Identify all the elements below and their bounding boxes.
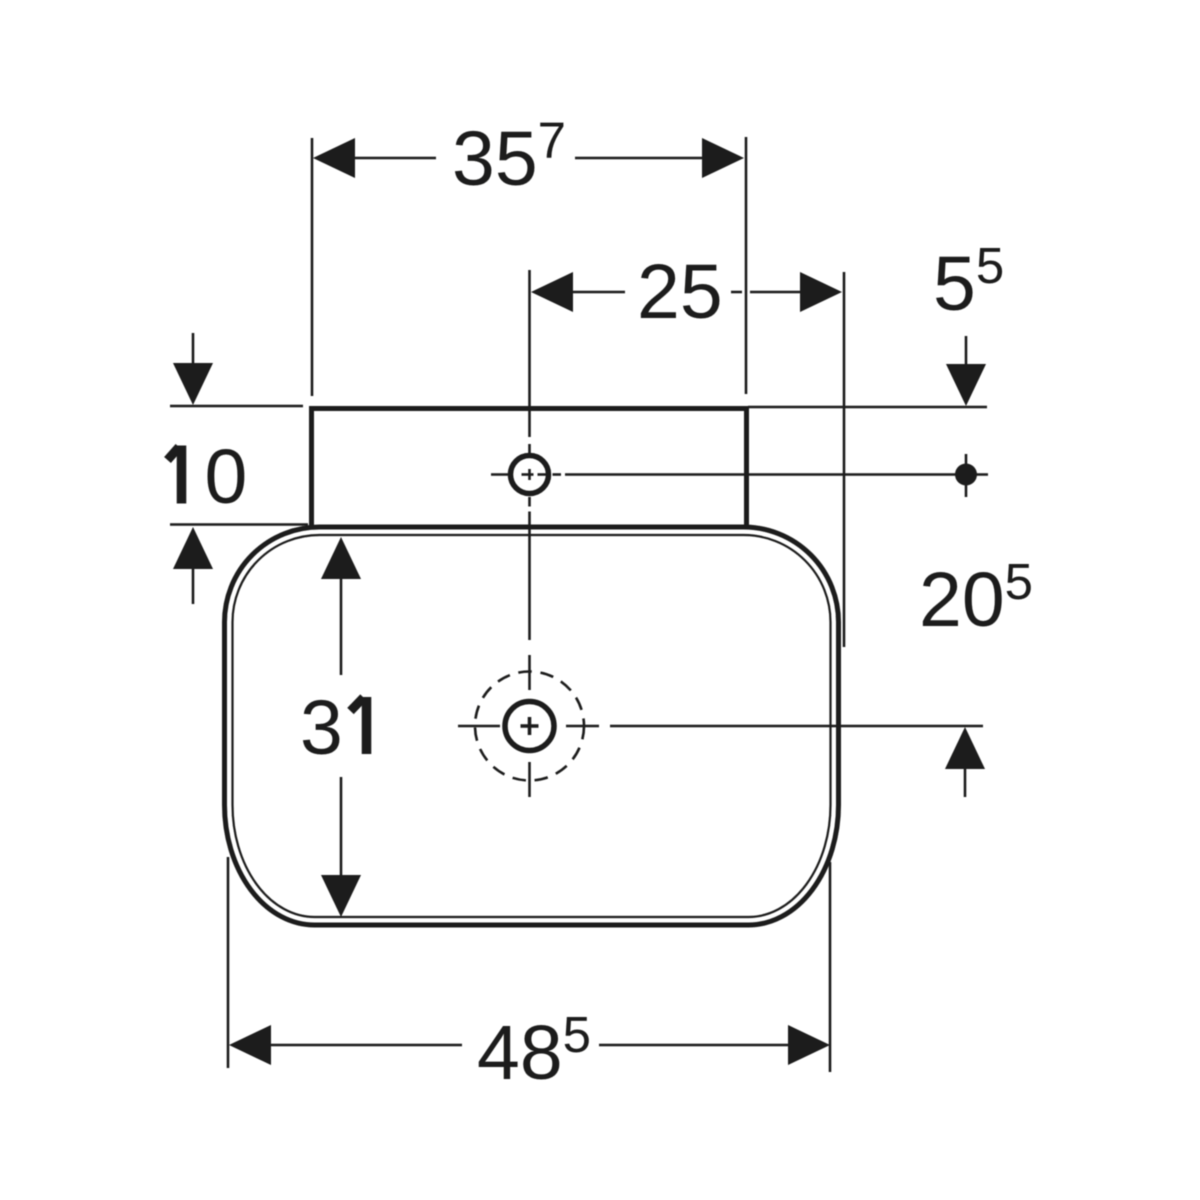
arrow 5.5 down xyxy=(946,364,986,406)
dim 20.5 tail (x=965) xyxy=(964,769,967,797)
wire: drain centerline ticks left xyxy=(458,725,500,728)
arrow 10 up xyxy=(173,527,213,569)
drain solid circle xyxy=(505,702,554,751)
wire: extension line right of 48.5 dim (x=830) xyxy=(829,862,832,1072)
dim 35.7 line right segment xyxy=(575,157,702,160)
dim 25 line segments xyxy=(571,291,625,294)
drain center cross xyxy=(521,724,539,728)
dim 48.5 line segments xyxy=(269,1044,462,1047)
wire: extension line right of 25 dim (x=844) xyxy=(843,272,846,647)
wire: extension line left of 35.7 dim (x=312) xyxy=(311,138,314,396)
label 10 : custom 1 glyph + 0 xyxy=(168,446,182,504)
arrow 20.5 up xyxy=(945,727,985,769)
wire: extension line right of 35.7 dim (x=746) xyxy=(745,137,748,394)
arrow 31 down xyxy=(321,875,361,917)
arrow 35.7 right xyxy=(702,138,744,178)
svg-text:25: 25 xyxy=(637,249,723,335)
wire: drain centerline horizontal long (y=726) xyxy=(610,725,983,728)
wire: left tick at basin top (y=525) xyxy=(170,523,308,526)
arrow 10 down xyxy=(173,363,213,405)
svg-text:3: 3 xyxy=(300,685,343,771)
wire: right extension of deck top (y=407) xyxy=(748,406,987,409)
dot marker 20.5 top xyxy=(955,464,977,486)
dim 10 tails (x=193) xyxy=(192,333,195,363)
arrow 25 left xyxy=(531,272,573,312)
deck (tap platform) outline xyxy=(312,409,747,528)
arrow 48.5 left xyxy=(229,1025,271,1065)
node: vertical centerline segments (x=529.5) xyxy=(528,270,531,437)
arrow 25 right xyxy=(800,272,842,312)
dim 20.5 dot tick xyxy=(965,454,968,497)
faucet hole circle xyxy=(511,456,549,494)
wire: faucet centerline horizontal dashes xyxy=(491,473,509,476)
basin inner outline xyxy=(233,535,831,917)
arrow 31 up xyxy=(321,537,361,579)
wire: extension line left of 48.5 dim (x=228) xyxy=(227,857,230,1068)
basin outer outline xyxy=(225,527,839,925)
drain dashed circle xyxy=(475,672,584,781)
arrow 35.7 left xyxy=(313,138,355,178)
svg-text:0: 0 xyxy=(205,434,248,520)
dim 31 line segments (x=341) xyxy=(340,579,343,675)
dim 35.7 line left segment xyxy=(355,157,436,160)
arrow 48.5 right xyxy=(788,1025,830,1065)
dim 5.5 tail (x=966) xyxy=(965,336,968,364)
wire: left tick at deck top (y=406) xyxy=(170,405,303,408)
wire: faucet centerline horizontal long (y=474.5) xyxy=(565,473,988,476)
